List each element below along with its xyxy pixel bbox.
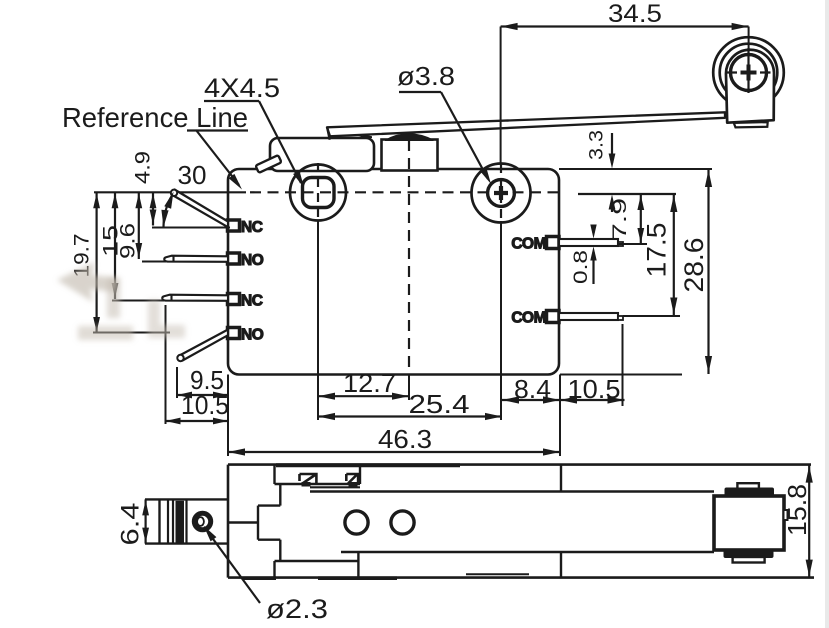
dim 15.8 down arrow [806,560,813,577]
label dia3.8 underline [399,91,441,93]
rail bottom line [341,551,714,553]
svg-text:COM: COM [511,236,546,253]
dim 7.9 line [640,194,642,244]
dim 30 arc arrow top [164,192,173,209]
bottom slot left vertical [273,561,275,578]
clip hook 1 foot [302,482,311,487]
dim 34.5 right extension [748,27,750,51]
roller middle ring [720,44,778,102]
dim 4.9 down arrow [150,210,157,225]
COM1 level extension line [617,243,647,245]
svg-text:12.7: 12.7 [343,368,396,398]
rail top short double [310,486,360,488]
roller bottom band [724,549,774,558]
mounting hole right centerline vertical [500,164,502,221]
roller crosshair horizontal dashes [727,71,771,73]
NO1 level extension line [142,261,166,263]
NO2 lever tip cap [177,355,183,361]
body left edge extension down [227,375,229,457]
bottom slot right vertical [357,552,359,578]
dim 10.5 right line [560,399,625,401]
svg-text:4.9: 4.9 [132,151,155,184]
reference line, dashed through body [250,191,558,193]
roller top tab [737,483,759,489]
rail top line [310,490,714,492]
body right edge extension down [559,375,561,457]
step contour lower horizontal [258,539,280,541]
COM1 terminal rod [559,239,618,246]
svg-text:8.4: 8.4 [514,374,551,404]
dim 3.3 lower tail [611,203,613,212]
svg-text:10.5: 10.5 [181,390,229,420]
svg-text:3.3: 3.3 [586,130,608,160]
bottom view bottom edge thick seg2 [318,576,397,580]
COM2 level extension line [623,315,680,317]
dim 34.5 left extension [500,27,502,164]
NC2 straight lever [162,295,228,301]
plunger button [382,140,438,171]
clip hook 2 [346,474,358,484]
dim 7.9 down arrow [637,228,644,243]
gray smudge arrow blob [57,262,118,302]
mounting hole left centerline vertical [317,163,319,221]
label 4X4.5 arrow [293,171,304,188]
dim 46.3 right arrow [543,448,560,455]
dim 25.4 line [318,415,502,417]
step contour lower vertical [279,540,281,561]
bracket ring line 3 [185,500,187,543]
roller outer ring [713,37,784,108]
mounting hole left outer circle [290,165,346,221]
clip hook 2 foot [349,482,358,487]
dim 0.8 upper tail [592,226,594,233]
dim 0.8 lower tail [592,252,594,284]
clip hook 1 [300,474,317,484]
dim 0.8 down arrow [590,225,596,239]
NC1 lever tip cap [171,190,177,196]
label dia3.8 arrow [480,167,491,184]
dim 6.4 up arrow [142,500,149,515]
label dia2.3 leader [205,528,260,603]
gray smudge vertical [107,278,120,318]
bottom view right edge line [560,465,562,492]
dim 9.6 line [138,192,140,259]
label dia3.8 leader [441,92,488,179]
lever-block contact lens [356,135,372,138]
terminal square COM2 [547,311,560,323]
dim 6.4 down arrow [142,528,149,543]
mounting hole right outer circle [472,164,531,223]
roller center cross [741,65,757,81]
svg-text:15: 15 [100,225,123,257]
dim 19.7 up arrow [93,193,100,208]
roller side square [714,496,784,550]
roller right bump [784,510,788,520]
NO2 bent lever down [180,330,229,361]
dim 4.9 line [152,192,154,225]
bottom view bottom edge thick seg1 [242,576,276,580]
dim 28.6 up arrow [705,170,712,187]
roller crosshair vertical [747,48,749,93]
lever bracket bottom edge [145,542,228,544]
NO1 straight lever [164,256,228,262]
plunger top contact lens [385,133,434,141]
lever left end hook [327,128,330,140]
label 4X4.5 underline [204,100,259,102]
dim 46.3 left arrow [228,448,245,455]
svg-text:ø2.3: ø2.3 [266,594,328,624]
bottom view top edge thick segment [276,463,460,467]
COM1 rod end step [618,242,623,246]
ext line hole2 rod end [622,324,624,406]
dim 10.5 left left-arrow [166,418,181,425]
bottom view left edge [227,465,230,578]
hinge lever arm [327,112,725,136]
roller fork [726,50,774,123]
dim 8.4 right arrow [543,396,560,403]
svg-text:34.5: 34.5 [608,0,662,28]
svg-text:COM: COM [511,310,546,327]
terminal square NC1 [228,220,240,231]
dim 30 arc [164,195,173,228]
dim 34.5 right arrow [732,23,749,30]
mounting hole left inner hole [303,178,335,208]
lever bracket left vertical [158,499,160,543]
plunger centerline dashed [408,140,410,375]
dim 28.6 line [707,169,709,374]
svg-text:ø3.8: ø3.8 [397,61,455,91]
COM2 rod end step [618,316,623,320]
terminal square NO4 [228,328,240,339]
roller inner circle [731,55,767,91]
svg-text:NO: NO [241,327,264,344]
dim 15 down arrow [112,283,119,298]
dim 19.7 line [95,192,97,333]
NO2 level extension line [93,332,170,334]
dim 3.3 upper tail [611,133,613,163]
top slot left vertical [273,465,275,484]
terminal square NO2 [228,253,240,264]
bottom view hole circle 2 [391,511,414,534]
mounting hole right extension line down [500,221,502,420]
dim 46.3 line [228,451,560,453]
bottom view hole circle 1 [345,511,368,534]
svg-text:NO: NO [241,252,264,269]
terminal square COM1 [547,237,560,249]
bottom shallow notch line [466,573,529,575]
svg-text:17.5: 17.5 [642,223,672,278]
dim 9.6 down arrow [135,243,142,258]
dim 34.5 left arrow [501,23,518,30]
bracket ring line 2 [172,500,174,543]
dim 12.7 left arrow [318,393,335,400]
pivot block left tab [255,155,281,173]
svg-text:28.6: 28.6 [679,238,709,293]
lever bracket top edge [145,498,228,500]
svg-text:46.3: 46.3 [378,424,432,454]
svg-text:NC: NC [241,293,263,310]
dim 17.5 down arrow [670,298,677,315]
NC2 level extension line [112,300,164,302]
NC1 bent lever 30deg [172,190,229,228]
dim 6.4 line [145,499,147,543]
fork bottom tab [734,122,768,127]
dim 28.6 down arrow [705,356,712,373]
dim 17.5 line [673,194,675,316]
dim 9.5 left arrow [177,392,192,399]
dim 9.5 right arrow [213,392,228,399]
dim 15.8 line [808,465,810,578]
svg-text:NC: NC [241,219,263,236]
body top right extension line [559,168,712,170]
dim 9.5 extension [176,367,178,398]
COM2 terminal rod [559,313,618,320]
reference line, solid right extension [578,193,676,195]
gray smudge bottom [78,326,133,340]
dim 3.3 down arrow [609,154,616,169]
dim 19.7 down arrow [93,317,100,332]
gray smudge corner [148,300,185,338]
dim 12.7 right arrow [392,393,409,400]
plunger centerline extension below body [408,375,410,401]
step contour middle vertical [257,506,259,540]
svg-text:6.4: 6.4 [117,502,145,545]
NC1 level extension line [152,227,230,229]
dim 30 arc arrow bottom [161,210,168,227]
svg-text:4X4.5: 4X4.5 [204,73,280,103]
bottom slot top line [275,560,359,562]
svg-text:Reference Line: Reference Line [62,102,248,133]
terminal square NC3 [228,294,240,305]
dim 10.5 right right-arrow [608,396,625,403]
bracket hole ring [194,513,210,529]
roller bottom tab [733,557,765,563]
dim 17.5 up arrow [670,195,677,212]
dim 0.8 up arrow [590,247,596,261]
dim 9.6 up arrow [135,193,142,208]
step contour upper horizontal [258,504,280,506]
scan edge gray strip [825,0,829,628]
reference line, solid left extension [94,191,246,193]
bottom view right edge line lower [560,552,562,578]
dim 7.9 up arrow [637,195,644,210]
dim 10.5 left right-arrow [213,418,228,425]
body bottom right extension line [560,374,682,376]
svg-text:25.4: 25.4 [409,389,470,419]
label Reference Line arrow [229,174,242,190]
svg-text:7.9: 7.9 [609,198,631,240]
dim 34.5 line [501,25,749,27]
svg-text:10.5: 10.5 [568,374,621,404]
lever pivot block [270,138,374,171]
roller top band [725,488,775,498]
dim 8.4 left arrow [502,396,519,403]
bottom view bottom edge [228,576,814,579]
label 4X4.5 leader [259,101,301,183]
svg-text:30: 30 [178,160,207,190]
dim 10.5 left extension [165,305,167,424]
label Reference Line underline [187,129,248,131]
dim 25.4 left arrow [318,413,335,420]
dim 10.5 left line [166,420,229,422]
mounting hole right inner hole [488,180,515,207]
mounting hole left extension line down [317,221,319,420]
dim 10.5 right left-arrow [560,396,577,403]
step contour upper vertical [279,484,281,506]
top slot bottom line [275,483,361,485]
label Reference Line leader [196,130,239,185]
top slot right vertical [359,465,361,484]
dim 9.5 line [177,394,228,396]
dim 25.4 right arrow [485,413,502,420]
dim 15.8 up arrow [806,466,813,483]
svg-text:0.8: 0.8 [570,250,592,284]
dim 15 line [114,192,116,299]
mounting hole right center cross [494,186,508,200]
bracket hole inner [197,517,204,526]
step contour center line [228,521,258,523]
dim 3.3 up arrow [609,195,616,210]
bracket ring line 1 [167,500,169,543]
dim 12.7 line [318,395,409,397]
switch body outline (top view) [228,169,559,375]
bracket roller band [176,501,185,543]
dim 15 up arrow [112,193,119,208]
dim 4.9 up arrow [150,193,157,208]
bottom view top edge [228,463,811,466]
label dia2.3 arrow [204,526,217,542]
dim 8.4 line [502,399,560,401]
